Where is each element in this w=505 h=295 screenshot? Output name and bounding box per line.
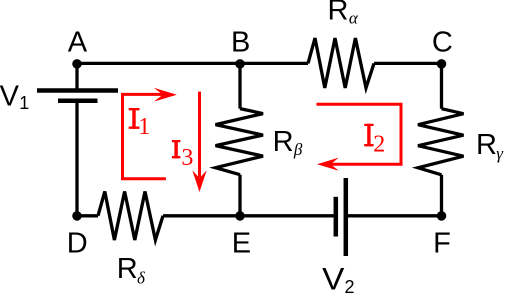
svg-text:V: V xyxy=(322,262,345,295)
wire R_alpha to C xyxy=(374,62,442,65)
svg-text:R: R xyxy=(117,253,138,285)
node A xyxy=(72,59,82,69)
battery V2 xyxy=(336,178,346,256)
current arrow I3 xyxy=(198,92,201,178)
wire V2 to F xyxy=(348,214,442,217)
node B xyxy=(235,59,245,69)
svg-text:E: E xyxy=(232,227,251,259)
svg-text:R: R xyxy=(328,0,349,27)
wire R_gamma to F xyxy=(440,175,443,216)
svg-text:β: β xyxy=(293,140,303,159)
wire R_beta to E xyxy=(238,175,241,216)
wire C to R_gamma xyxy=(440,63,443,108)
wire V1 to D xyxy=(75,103,78,216)
svg-text:A: A xyxy=(68,27,88,59)
svg-text:R: R xyxy=(476,129,497,161)
current loop I2 xyxy=(317,104,402,164)
svg-text:R: R xyxy=(273,126,294,158)
wire B to R_beta xyxy=(238,63,241,108)
label V1 xyxy=(0,80,29,113)
svg-text:α: α xyxy=(349,9,359,28)
wire A to V1 xyxy=(75,63,78,88)
svg-text:γ: γ xyxy=(496,144,504,163)
label R_alpha xyxy=(328,0,359,28)
resistor R_gamma xyxy=(418,109,464,175)
svg-text:2: 2 xyxy=(345,277,355,295)
node F xyxy=(437,211,447,221)
arrowhead I3 xyxy=(192,170,206,192)
label R_delta xyxy=(117,253,146,287)
svg-text:1: 1 xyxy=(138,114,150,140)
wire B to R_alpha xyxy=(240,62,308,65)
resistor R_alpha xyxy=(308,38,374,88)
svg-text:F: F xyxy=(433,227,451,259)
label R_beta xyxy=(273,126,303,159)
svg-text:B: B xyxy=(231,27,250,59)
wire R_delta to E xyxy=(163,214,240,217)
label R_gamma xyxy=(476,129,504,163)
node E xyxy=(235,211,245,221)
svg-text:V: V xyxy=(0,80,20,112)
svg-text:δ: δ xyxy=(137,268,146,287)
svg-text:C: C xyxy=(432,26,453,58)
svg-text:D: D xyxy=(67,227,88,259)
label I2 xyxy=(364,124,385,158)
label I1 xyxy=(129,108,151,140)
current loop I1 xyxy=(123,94,166,178)
resistor R_beta xyxy=(216,109,264,175)
arrowhead I1 xyxy=(154,88,177,102)
label I3 xyxy=(172,140,194,171)
svg-text:3: 3 xyxy=(181,145,193,171)
wire E to V2 xyxy=(240,214,334,217)
node D xyxy=(72,211,82,221)
arrowhead I2 xyxy=(317,158,339,171)
label V2 xyxy=(322,262,354,295)
svg-text:2: 2 xyxy=(373,131,385,157)
resistor R_delta xyxy=(98,192,163,241)
svg-text:1: 1 xyxy=(19,93,29,113)
wire D to R_delta xyxy=(77,214,98,217)
node C xyxy=(437,59,447,69)
battery V1 xyxy=(37,91,118,101)
wire A-B xyxy=(77,62,240,65)
